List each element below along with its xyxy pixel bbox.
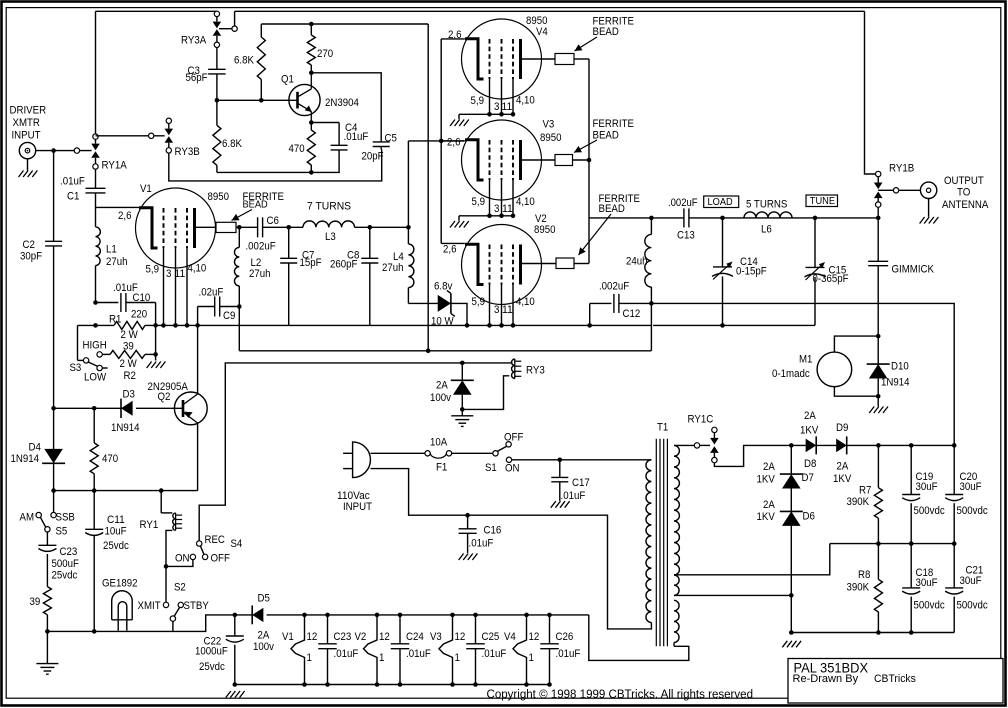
ground below C17 <box>551 501 556 508</box>
svg-text:5,9: 5,9 <box>472 196 486 208</box>
junction 39 bottom <box>45 629 50 634</box>
capacitor C4 .01uF <box>331 144 348 146</box>
arrow to bead V3 <box>574 140 597 153</box>
wire HV bottom rail <box>791 632 954 634</box>
wire RY1B bottom to node <box>877 207 879 218</box>
wire RY3A side tap <box>219 28 232 30</box>
svg-text:D10: D10 <box>891 361 909 373</box>
wire RY3A to C3 <box>216 48 218 70</box>
capacitor C24 .01uF <box>399 615 401 644</box>
svg-text:30uF: 30uF <box>916 577 938 589</box>
switch S1 on/off <box>493 451 498 456</box>
junction C25 <box>473 613 478 618</box>
wire L4 node up to grid line <box>407 141 409 227</box>
svg-text:AM: AM <box>20 512 35 524</box>
svg-text:D3: D3 <box>123 389 135 401</box>
svg-text:L3: L3 <box>325 231 336 243</box>
wire T1 to RY1C <box>674 444 694 446</box>
svg-text:2 W: 2 W <box>120 358 138 370</box>
junction C26 <box>547 613 552 618</box>
ferrite bead V3 <box>555 155 573 166</box>
junction C10 left <box>93 300 98 305</box>
svg-text:FERRITE: FERRITE <box>593 118 634 130</box>
wire V3 grid stub (grid line continues) <box>441 140 465 142</box>
svg-text:.01uF: .01uF <box>406 648 431 660</box>
svg-text:C5: C5 <box>385 133 397 145</box>
connector output to antenna <box>920 182 936 198</box>
wire Q2 collector up <box>197 307 199 395</box>
junction Q1 collector node <box>309 71 314 76</box>
junction C15 top <box>813 216 818 221</box>
relay contact RY1C <box>694 443 699 448</box>
svg-text:F1: F1 <box>436 462 447 474</box>
svg-text:LOAD: LOAD <box>708 196 734 208</box>
ground below output connector <box>928 199 930 217</box>
svg-text:10A: 10A <box>430 437 448 449</box>
svg-text:12: 12 <box>379 631 390 643</box>
svg-text:.01uF: .01uF <box>60 176 85 188</box>
svg-text:1KV: 1KV <box>800 425 819 437</box>
junction C16 top <box>465 513 470 518</box>
diode D6 2A 1KV <box>790 489 792 512</box>
svg-text:INPUT: INPUT <box>12 130 41 142</box>
svg-text:.01uF: .01uF <box>561 490 586 502</box>
junction meter bottom node <box>876 394 881 399</box>
wire RY1C to rectifiers <box>714 445 806 466</box>
wire V4 pins down <box>489 79 491 114</box>
wire V1 pin 5,9 down <box>163 248 165 325</box>
svg-text:470: 470 <box>289 143 305 155</box>
wire input to RY1A <box>36 150 92 152</box>
svg-text:S1: S1 <box>485 462 497 474</box>
svg-text:30uF: 30uF <box>960 575 982 587</box>
svg-text:27uh: 27uh <box>382 262 404 274</box>
svg-text:2,6: 2,6 <box>443 244 457 256</box>
junction 470 bottom <box>309 170 314 175</box>
svg-text:Q2: Q2 <box>158 391 171 403</box>
svg-text:4,10: 4,10 <box>516 196 535 208</box>
svg-text:S4: S4 <box>231 538 243 550</box>
transformer T1 secondary HV <box>674 445 679 575</box>
svg-text:C6: C6 <box>267 215 279 227</box>
svg-text:2N3904: 2N3904 <box>325 97 359 109</box>
label LOAD box <box>704 196 739 208</box>
tube heater V2 pins 12/1 <box>364 615 378 685</box>
junction C20 top <box>952 443 957 448</box>
meter M1 0-1madc <box>817 352 852 387</box>
svg-text:C16: C16 <box>484 525 502 537</box>
svg-text:STBY: STBY <box>184 600 210 612</box>
arrow to bead V1 <box>232 210 253 221</box>
relay coil RY3 <box>514 359 516 379</box>
svg-text:25vdc: 25vdc <box>199 661 225 673</box>
junction V4 pins <box>487 112 492 117</box>
wire C3 to Q1 base node <box>216 74 218 100</box>
svg-text:ON: ON <box>505 463 520 475</box>
svg-text:1: 1 <box>529 652 534 664</box>
svg-text:LOW: LOW <box>84 372 107 384</box>
resistor R2 39 2W <box>102 353 110 355</box>
svg-text:500vdc: 500vdc <box>957 505 989 517</box>
junction C7 top <box>286 225 291 230</box>
svg-text:390K: 390K <box>847 582 870 594</box>
wire V3 pins down <box>489 180 491 216</box>
tube heater V1 pins 12/1 <box>291 615 305 685</box>
svg-text:7 TURNS: 7 TURNS <box>307 201 351 213</box>
svg-text:30uF: 30uF <box>916 481 938 493</box>
capacitor C23 .01uF <box>327 615 329 644</box>
svg-text:5,9: 5,9 <box>146 264 160 276</box>
capacitor C25 .01uF <box>475 615 477 644</box>
svg-text:V2: V2 <box>355 631 367 643</box>
diode D10 1N914 <box>877 336 879 364</box>
svg-text:C11: C11 <box>107 514 125 526</box>
capacitor C1 .01uF <box>86 187 106 189</box>
wire D3 line <box>54 407 121 409</box>
svg-text:.002uF: .002uF <box>246 241 276 253</box>
svg-text:R1: R1 <box>109 314 121 326</box>
svg-text:RY3: RY3 <box>526 365 545 377</box>
svg-text:10 W: 10 W <box>431 316 454 328</box>
capacitor C21 30uF 500vdc <box>953 544 955 588</box>
svg-text:2A: 2A <box>804 410 816 422</box>
svg-text:2,6: 2,6 <box>447 137 461 149</box>
junction keying/grid rail <box>426 349 431 354</box>
junction Q1 emitter node <box>309 120 314 125</box>
inductor L4 27uh <box>407 227 409 244</box>
capacitor C9 .02uF <box>198 306 215 308</box>
wire D6 down <box>790 526 792 633</box>
junction bias rail <box>51 488 56 493</box>
wire V3 plate to bead <box>521 159 556 161</box>
capacitor C19 30uF 500vdc <box>910 445 912 494</box>
wire HV mid rail <box>830 543 954 545</box>
diode D4 1N914 <box>53 408 55 452</box>
wire bead V3 to plate bus <box>573 159 590 161</box>
svg-text:C23: C23 <box>334 631 352 643</box>
lamp GE1892 <box>111 601 113 620</box>
svg-text:4,10: 4,10 <box>516 95 535 107</box>
svg-text:RY1A: RY1A <box>102 160 128 172</box>
junction R1 right <box>153 323 158 328</box>
relay contact RY1A <box>93 134 98 139</box>
svg-text:RY1B: RY1B <box>889 163 914 175</box>
junction C9/L2 node <box>237 304 242 309</box>
svg-text:56pF: 56pF <box>186 72 208 84</box>
tube V2 8950 <box>462 225 542 305</box>
capacitor C10 .01uF <box>96 302 119 304</box>
ground HV supply <box>782 641 787 648</box>
transformer T1 heater winding <box>674 600 679 642</box>
svg-text:6.8v: 6.8v <box>434 281 453 293</box>
svg-text:HIGH: HIGH <box>83 340 107 352</box>
wire fuse to S1 <box>452 452 494 454</box>
svg-text:10uF: 10uF <box>105 526 127 538</box>
svg-text:2,6: 2,6 <box>118 210 132 222</box>
svg-text:260pF: 260pF <box>330 259 358 271</box>
svg-text:2A: 2A <box>837 461 849 473</box>
diode D7 2A 1KV <box>790 445 792 474</box>
wire S1 to transformer <box>512 459 652 461</box>
arrow to bead V4 <box>575 37 598 51</box>
svg-text:OFF: OFF <box>504 432 524 444</box>
svg-text:C24: C24 <box>406 631 424 643</box>
svg-text:500uF: 500uF <box>52 558 80 570</box>
svg-text:TO: TO <box>957 187 971 199</box>
wire V1 plate to bead <box>195 226 217 228</box>
svg-text:RY3A: RY3A <box>181 35 207 47</box>
capacitor C11 10uF 25vdc <box>93 491 95 530</box>
svg-text:BEAD: BEAD <box>599 203 625 215</box>
svg-text:BEAD: BEAD <box>243 199 269 211</box>
svg-text:C10: C10 <box>133 292 151 304</box>
junction keying diode bottom <box>460 407 465 412</box>
resistor R7 390K <box>877 445 879 487</box>
wire V4 grid stub <box>441 38 465 40</box>
svg-text:XMTR: XMTR <box>13 117 40 129</box>
wire S4 keying line <box>199 363 512 541</box>
ground keying <box>461 409 463 415</box>
diode D5 2A 100v <box>252 608 263 622</box>
wire grid bias rail <box>239 350 651 352</box>
wire C10 right down <box>155 303 157 361</box>
junction C17 top <box>558 458 563 463</box>
capacitor C17 .01uF <box>559 460 561 478</box>
svg-text:12: 12 <box>529 631 540 643</box>
junction R8 top <box>876 541 881 546</box>
junction RY1B/gimmick node <box>876 216 881 221</box>
svg-text:.01uF: .01uF <box>482 648 507 660</box>
wire C6 to L3 <box>263 226 303 228</box>
wire RY3 bottom lead <box>462 376 509 410</box>
wire cathode rail <box>78 324 115 326</box>
junction C14 top <box>720 216 725 221</box>
transformer T1 core <box>655 439 657 647</box>
junction meter top node <box>876 334 881 339</box>
svg-text:12: 12 <box>455 631 466 643</box>
ground V4 pins <box>450 120 455 127</box>
wire RY3B down and right to C5 <box>169 150 382 181</box>
svg-text:R7: R7 <box>859 485 871 497</box>
ground at R2 <box>147 362 152 369</box>
wire secondary tap to ground <box>674 594 791 596</box>
capacitor C2 30pF <box>53 151 55 242</box>
junction R8 bottom <box>876 630 881 635</box>
wire C9 node down to grid rail <box>238 307 240 351</box>
svg-text:8950: 8950 <box>208 191 230 203</box>
svg-text:T1: T1 <box>657 422 668 434</box>
svg-text:Q1: Q1 <box>281 74 294 86</box>
svg-text:24uh: 24uh <box>626 256 648 268</box>
svg-text:15pF: 15pF <box>300 257 322 269</box>
junction C21 top <box>952 541 957 546</box>
svg-text:C25: C25 <box>482 631 500 643</box>
svg-text:BEAD: BEAD <box>593 26 619 38</box>
wire V1 grid <box>96 206 141 208</box>
title block <box>788 659 1003 704</box>
transformer T1 primary <box>646 460 651 623</box>
junction HV ground node <box>789 630 794 635</box>
wire V2 pins down <box>489 285 491 326</box>
junction V3 pins <box>487 214 492 219</box>
capacitor C13 .002uF <box>683 208 685 227</box>
svg-text:L1: L1 <box>106 244 117 256</box>
diode 2A 100v keying <box>461 363 463 380</box>
svg-text:C12: C12 <box>623 308 641 320</box>
junction heater V3 <box>450 613 455 618</box>
wire HV bottom lead <box>674 544 830 575</box>
svg-text:.01uF: .01uF <box>334 648 359 660</box>
junction C18 bottom <box>909 630 914 635</box>
capacitor gimmick <box>877 218 879 261</box>
ground below D10 <box>877 396 879 406</box>
ground below C22 <box>226 691 231 698</box>
wire Q1 bottom rail <box>217 150 339 173</box>
wire grid line to tubes <box>408 140 464 142</box>
wire L4 to zener <box>408 302 438 304</box>
ferrite bead V1 <box>216 222 236 232</box>
wire zener to cathode rail <box>451 303 467 325</box>
wire to ON contact <box>166 560 193 567</box>
svg-text:1N914: 1N914 <box>111 422 140 434</box>
svg-text:5,9: 5,9 <box>472 296 486 308</box>
svg-text:Copyright © 1998 1999 CB: Copyright © 1998 1999 CBTricks. All righ… <box>487 687 754 701</box>
svg-text:0-15pF: 0-15pF <box>736 266 767 278</box>
wire bead to C6 <box>236 226 258 228</box>
inductor L3 7 turns <box>303 221 355 227</box>
wire +keying rail y24 <box>261 23 428 25</box>
svg-text:25vdc: 25vdc <box>52 570 78 582</box>
diode D9 2A 1KV <box>836 439 847 453</box>
svg-text:390K: 390K <box>847 496 870 508</box>
svg-text:ON: ON <box>175 553 190 565</box>
svg-text:V3: V3 <box>543 119 555 131</box>
svg-text:11: 11 <box>502 304 513 316</box>
svg-text:39: 39 <box>30 596 41 608</box>
capacitor C12 .002uF <box>590 302 612 304</box>
junction D7 top <box>789 443 794 448</box>
tube V3 8950 <box>462 120 542 200</box>
svg-text:.01uF: .01uF <box>469 538 494 550</box>
junction C3/6.8K node <box>215 98 220 103</box>
svg-text:470: 470 <box>102 453 118 465</box>
wire top rail down to RY1B <box>865 11 876 174</box>
svg-text:5,9: 5,9 <box>471 95 485 107</box>
capacitor C3 56pF <box>208 68 226 70</box>
junction 6.8K upper bottom <box>259 98 264 103</box>
inductor L6 5 turns <box>744 212 792 218</box>
diode D8 2A 1KV <box>806 439 817 453</box>
resistor 470 bias <box>93 408 95 443</box>
svg-text:INPUT: INPUT <box>343 501 372 513</box>
svg-text:L6: L6 <box>761 224 772 236</box>
svg-text:1: 1 <box>379 652 384 664</box>
junction V2 pins on rail <box>487 323 492 328</box>
wire B+ feed rail <box>651 303 954 445</box>
svg-text:D4: D4 <box>29 442 41 454</box>
svg-text:OFF: OFF <box>211 553 231 565</box>
svg-text:D6: D6 <box>803 511 815 523</box>
svg-text:.002uF: .002uF <box>599 281 629 293</box>
junction node input/C2 <box>51 148 56 153</box>
junction C19 top <box>909 443 914 448</box>
svg-text:D7: D7 <box>802 472 814 484</box>
svg-text:GE1892: GE1892 <box>102 578 138 590</box>
wire heater rail <box>235 614 252 616</box>
junction tap/D6 <box>789 593 794 598</box>
wire V2 grid stub <box>441 242 465 244</box>
svg-text:1N914: 1N914 <box>881 377 910 389</box>
svg-text:220: 220 <box>131 309 147 321</box>
wire rectifier output rail <box>847 444 955 446</box>
junction zener drop <box>465 323 470 328</box>
svg-text:S5: S5 <box>56 526 68 538</box>
svg-text:4,10: 4,10 <box>188 263 207 275</box>
wire D8 to D9 <box>816 444 840 446</box>
capacitor C8 260pF <box>369 227 371 258</box>
svg-text:0-1madc: 0-1madc <box>772 368 810 380</box>
svg-text:DRIVER: DRIVER <box>10 105 47 117</box>
svg-text:V3: V3 <box>430 631 442 643</box>
svg-text:R2: R2 <box>124 370 136 382</box>
svg-text:M1: M1 <box>799 354 812 366</box>
wire plate bus to output node <box>589 217 683 219</box>
wire bead V4 to plate bus <box>574 58 589 60</box>
junction 24uh top <box>649 216 654 221</box>
svg-text:V4: V4 <box>536 26 548 38</box>
resistor 39 <box>43 587 51 615</box>
capacitor C22 1000uF 25vdc <box>234 615 236 636</box>
junction L4 node <box>406 225 411 230</box>
svg-text:RY1: RY1 <box>140 519 159 531</box>
relay contact RY3A <box>214 11 219 16</box>
junction 270 top <box>309 22 314 27</box>
svg-text:2 W: 2 W <box>121 329 139 341</box>
relay contact RY1B <box>876 171 881 176</box>
junction R7 top <box>876 443 881 448</box>
svg-text:3: 3 <box>494 304 499 316</box>
ferrite bead V2 <box>556 258 574 269</box>
wire top rail left <box>96 10 217 12</box>
resistor 6.8K upper <box>260 24 262 37</box>
junction C22 top <box>233 613 238 618</box>
junction C8 top <box>368 225 373 230</box>
diode D3 1N914 <box>121 401 133 416</box>
wire gimmick down <box>877 266 879 336</box>
svg-text:R8: R8 <box>858 569 870 581</box>
wire collector to C5 <box>311 73 381 142</box>
svg-text:C23: C23 <box>60 546 78 558</box>
switch S3 high/low <box>77 325 79 360</box>
variable capacitor C14 0-15pF <box>722 218 724 267</box>
terminal on RY3B wire <box>149 133 154 138</box>
svg-text:0-365pF: 0-365pF <box>813 273 849 285</box>
wire base node to Q1 <box>217 99 298 101</box>
wire plug low side <box>371 469 652 629</box>
wire plug to fuse <box>371 452 426 454</box>
svg-text:500vdc: 500vdc <box>914 600 946 612</box>
wire node down to grid rail <box>650 303 652 350</box>
wire L3 to L4 node <box>355 226 409 228</box>
wire top rail right <box>235 10 865 12</box>
svg-text:5 TURNS: 5 TURNS <box>746 199 787 211</box>
svg-text:.01uF: .01uF <box>556 648 581 660</box>
wire RY1B to output connector <box>878 189 893 191</box>
wire RY1A to C1 <box>95 169 97 188</box>
svg-text:25vdc: 25vdc <box>103 540 129 552</box>
plug 110Vac input <box>353 442 371 478</box>
ground V3 pins <box>450 221 455 228</box>
